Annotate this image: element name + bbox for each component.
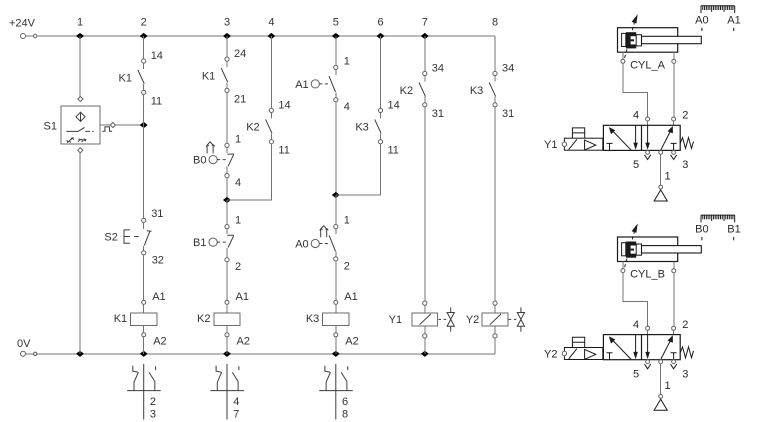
valve Y2 right position flow paths <box>645 335 676 360</box>
cylinder CYL_A <box>618 28 702 72</box>
wire col2 rail to K1 contact <box>143 36 145 59</box>
svg-text:2: 2 <box>682 319 688 331</box>
limit switch A1 <box>295 55 350 113</box>
relay contact K2 <box>246 99 290 156</box>
S1 output pin <box>110 122 115 127</box>
cylinder CYL_B port stubs <box>621 262 676 273</box>
svg-text:1: 1 <box>664 171 670 183</box>
compressed air source <box>654 190 667 201</box>
svg-text:B0: B0 <box>695 224 708 236</box>
manual override Y1 <box>572 128 585 138</box>
svg-text:4: 4 <box>233 396 239 408</box>
svg-text:K3: K3 <box>306 313 319 325</box>
wire col7 coil to rail <box>424 338 426 354</box>
svg-text:5: 5 <box>633 369 639 381</box>
svg-text:21: 21 <box>234 93 246 105</box>
wire col5 coil to rail <box>335 337 337 354</box>
svg-text:1: 1 <box>77 16 83 28</box>
net 0V return rail <box>17 338 495 356</box>
svg-text:+24V: +24V <box>9 18 36 30</box>
svg-text:34: 34 <box>502 63 514 75</box>
svg-text:2: 2 <box>141 16 147 28</box>
junction node col3/col4 <box>223 197 231 203</box>
svg-text:A0: A0 <box>295 239 308 251</box>
position ruler A0/A1 <box>695 6 741 31</box>
svg-text:2: 2 <box>682 110 688 122</box>
junction top rail col 7 <box>421 33 429 39</box>
svg-text:K2: K2 <box>246 122 259 134</box>
relay contact K1 rung3 <box>202 48 246 105</box>
wire col5 rail to A1 <box>335 36 337 66</box>
wire col7 rail to K2 contact <box>424 36 426 72</box>
junction bottom rail col 7 <box>421 351 429 357</box>
svg-text:4: 4 <box>633 319 639 331</box>
limit switch A0 <box>295 215 350 273</box>
relay coil K3 <box>306 291 359 348</box>
svg-text:S2: S2 <box>104 231 117 243</box>
cylinder CYL_B <box>618 237 702 281</box>
wire col4 K2 down and left to col3 node <box>227 144 271 200</box>
svg-text:CYL_B: CYL_B <box>630 269 665 281</box>
svg-text:S1: S1 <box>44 121 57 133</box>
valve Y2 port 1 supply line <box>659 360 663 398</box>
svg-text:7: 7 <box>233 408 239 420</box>
wire col8 rail to K3 contact <box>494 36 496 72</box>
relay contact K2 rung7 <box>400 63 444 120</box>
switch box S1 <box>44 106 100 144</box>
valve Y1 port 1 supply line <box>659 151 663 190</box>
svg-text:1: 1 <box>664 380 670 392</box>
svg-text:Y2: Y2 <box>544 349 557 361</box>
wire col3 rail to K1 contact <box>226 36 228 57</box>
contact cross-reference 6/8 <box>319 364 353 420</box>
svg-text:24: 24 <box>234 48 246 60</box>
valve Y2 left position flow paths <box>607 335 638 360</box>
wire col2 S2 to coil <box>143 255 145 301</box>
svg-text:A1: A1 <box>295 79 308 91</box>
valve Y1 port numbers <box>633 110 688 183</box>
wire col5 A0 to coil <box>335 261 337 301</box>
wire col1 bottom <box>79 152 81 353</box>
solenoid coil Y1 valve icon <box>438 307 454 331</box>
wire col1 top <box>79 36 81 97</box>
wire col3 node to B1 <box>226 200 228 225</box>
pilot line CYL_B cap end to valve port 4 <box>623 273 648 327</box>
svg-text:B1: B1 <box>193 237 206 249</box>
svg-text:K2: K2 <box>197 313 210 325</box>
relay contact K1 <box>119 50 163 107</box>
wire col7 K2 to Y1 coil <box>424 107 426 301</box>
svg-text:K1: K1 <box>114 313 127 325</box>
svg-text:4: 4 <box>235 177 241 189</box>
svg-text:31: 31 <box>502 108 514 120</box>
svg-text:5: 5 <box>333 16 339 28</box>
svg-text:A1: A1 <box>236 291 249 303</box>
valve Y1 right position flow paths <box>645 125 676 150</box>
junction top rail col 5 <box>332 33 340 39</box>
svg-text:A2: A2 <box>153 336 166 348</box>
junction top rail col 3 <box>223 33 231 39</box>
valve port 4 pin <box>646 326 650 330</box>
svg-text:4: 4 <box>268 16 274 28</box>
solenoid coil Y2 valve icon <box>509 307 525 331</box>
solenoid coil Y1 <box>389 301 438 338</box>
position ruler B0/B1 <box>695 215 741 240</box>
valve Y1 exhaust 5 <box>645 151 651 160</box>
valve port 4 pin <box>646 117 650 121</box>
wire col6 K3 down and left to col5 node <box>336 144 381 195</box>
svg-text:A1: A1 <box>727 14 740 26</box>
solenoid coil Y2 <box>466 301 508 338</box>
net +24V supply rail <box>9 18 495 39</box>
svg-text:2: 2 <box>344 260 350 272</box>
contact cross-reference 4/7 <box>210 364 244 420</box>
svg-text:1: 1 <box>344 55 350 67</box>
svg-text:A2: A2 <box>237 336 250 348</box>
S1 output wire to col2 <box>100 124 144 126</box>
svg-text:B0: B0 <box>193 155 206 167</box>
svg-text:4: 4 <box>633 110 639 122</box>
svg-text:B1: B1 <box>727 224 740 236</box>
junction top rail col 6 <box>377 33 385 39</box>
cylinder CYL_A port stubs <box>621 52 676 63</box>
svg-text:11: 11 <box>151 95 162 107</box>
wire col3 coil to rail <box>226 337 228 354</box>
valve Y2 port numbers <box>633 319 688 392</box>
svg-text:A1: A1 <box>152 291 165 303</box>
svg-text:K3: K3 <box>355 122 368 134</box>
svg-text:31: 31 <box>151 208 163 220</box>
svg-text:34: 34 <box>432 63 444 75</box>
svg-text:1: 1 <box>235 133 241 145</box>
S1 bottom pin <box>78 148 83 153</box>
svg-text:A1: A1 <box>344 291 357 303</box>
wire col2 K1 to S2 <box>143 94 145 218</box>
svg-text:A0: A0 <box>695 14 708 26</box>
junction top rail col 1 <box>76 33 84 39</box>
svg-text:4: 4 <box>344 101 350 113</box>
wire col5 node to A0 <box>335 195 337 225</box>
S1 top pin <box>78 96 83 101</box>
svg-text:K2: K2 <box>400 85 413 97</box>
limit switch B0 <box>193 133 241 189</box>
manual override Y2 <box>572 337 585 347</box>
pulse edge symbol <box>102 127 112 131</box>
valve Y2 exhaust 3 <box>671 360 677 369</box>
relay coil K1 <box>114 291 167 348</box>
svg-text:6: 6 <box>342 396 348 408</box>
svg-text:Y2: Y2 <box>466 314 479 326</box>
wire col3 B0 to node <box>226 178 228 201</box>
relay coil K2 <box>197 291 250 348</box>
junction bottom rail col 5 <box>332 351 340 357</box>
solenoid pilot Y2 <box>544 348 603 361</box>
valve Y1 left position flow paths <box>607 125 638 150</box>
svg-text:Y1: Y1 <box>544 139 557 151</box>
junction bottom rail col 3 <box>223 351 231 357</box>
wire col3 to B0 <box>226 92 228 143</box>
svg-text:5: 5 <box>633 159 639 171</box>
relay contact K3 rung8 <box>470 63 514 120</box>
cylinder CYL_B motion arrow <box>625 224 638 268</box>
svg-text:2: 2 <box>235 261 241 273</box>
5/2-way valve Y1 body <box>603 125 680 150</box>
pilot line CYL_B rod end to valve port 2 <box>673 273 675 327</box>
svg-text:8: 8 <box>342 408 348 420</box>
compressed air source <box>654 399 667 410</box>
pushbutton S2 (NC) <box>104 208 164 267</box>
svg-text:K3: K3 <box>470 85 483 97</box>
valve port 2 pin <box>672 326 676 330</box>
svg-text:6: 6 <box>377 16 383 28</box>
wire col5 A1 to node <box>335 102 337 195</box>
svg-text:K1: K1 <box>119 72 132 84</box>
junction bottom rail col 1 <box>76 351 84 357</box>
junction node col5/col6 <box>332 192 340 198</box>
wire col2 coil to rail <box>143 337 145 354</box>
junction node col2/S1 output <box>140 122 148 128</box>
svg-text:Y1: Y1 <box>389 314 402 326</box>
svg-text:8: 8 <box>492 16 498 28</box>
junction bottom rail col 2 <box>140 351 148 357</box>
wire col8 coil to rail <box>494 338 496 354</box>
svg-text:K1: K1 <box>202 70 215 82</box>
pilot line CYL_A rod end to valve port 2 <box>673 63 675 117</box>
svg-text:3: 3 <box>224 16 230 28</box>
junction top rail col 4 <box>267 33 275 39</box>
contact cross-reference 2/3 <box>127 364 161 420</box>
svg-text:A2: A2 <box>345 336 358 348</box>
valve Y2 exhaust 5 <box>645 360 651 369</box>
svg-text:7: 7 <box>422 16 428 28</box>
svg-text:32: 32 <box>152 255 164 267</box>
valve port 2 pin <box>672 117 676 121</box>
svg-text:11: 11 <box>388 145 399 157</box>
svg-text:31: 31 <box>432 108 444 120</box>
rung numbers 1-8 <box>77 16 498 28</box>
svg-text:3: 3 <box>150 408 156 420</box>
svg-text:1: 1 <box>344 215 350 227</box>
svg-text:14: 14 <box>278 99 290 111</box>
svg-text:11: 11 <box>278 145 289 157</box>
5/2-way valve Y2 body <box>603 335 680 360</box>
svg-text:0V: 0V <box>17 338 31 350</box>
valve Y1 exhaust 3 <box>671 151 677 160</box>
svg-text:14: 14 <box>388 99 400 111</box>
valve Y2 return spring <box>680 347 693 358</box>
junction top rail col 2 <box>140 33 148 39</box>
svg-text:3: 3 <box>682 159 688 171</box>
svg-text:CYL_A: CYL_A <box>630 59 666 71</box>
limit switch B1 <box>193 215 241 274</box>
svg-text:2: 2 <box>150 396 156 408</box>
solenoid pilot Y1 <box>544 138 603 151</box>
relay contact K3 <box>355 99 399 156</box>
wire col4 rail to K2 contact <box>270 36 272 109</box>
svg-text:3: 3 <box>682 369 688 381</box>
wire col3 B1 to coil <box>226 262 228 301</box>
svg-text:14: 14 <box>151 50 163 62</box>
svg-text:1: 1 <box>235 215 241 227</box>
valve Y1 return spring <box>680 138 693 149</box>
pilot line CYL_A cap end to valve port 4 <box>623 63 648 117</box>
cylinder CYL_A motion arrow <box>625 14 638 58</box>
wire col6 rail to K3 contact <box>380 36 382 109</box>
wire col8 K3 to Y2 coil <box>494 107 496 301</box>
